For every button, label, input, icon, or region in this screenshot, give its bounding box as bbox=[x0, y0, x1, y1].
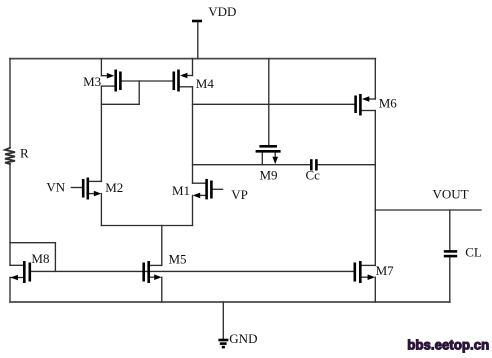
svg-text:M2: M2 bbox=[105, 180, 123, 195]
svg-text:GND: GND bbox=[229, 331, 257, 346]
svg-text:M9: M9 bbox=[260, 168, 278, 183]
svg-text:R: R bbox=[20, 146, 29, 161]
svg-text:VN: VN bbox=[46, 180, 65, 195]
svg-text:M5: M5 bbox=[169, 252, 187, 267]
svg-text:VOUT: VOUT bbox=[433, 187, 469, 202]
svg-text:M4: M4 bbox=[196, 76, 215, 91]
svg-text:M3: M3 bbox=[83, 74, 101, 89]
svg-text:CL: CL bbox=[465, 245, 482, 260]
svg-text:bbs.eetop.cn: bbs.eetop.cn bbox=[407, 337, 489, 352]
svg-text:M8: M8 bbox=[31, 251, 49, 266]
svg-text:VDD: VDD bbox=[208, 4, 236, 19]
svg-text:M7: M7 bbox=[376, 263, 395, 278]
svg-text:Cc: Cc bbox=[306, 168, 321, 183]
svg-text:M6: M6 bbox=[379, 95, 398, 110]
svg-text:VP: VP bbox=[231, 187, 248, 202]
svg-text:M1: M1 bbox=[172, 183, 190, 198]
